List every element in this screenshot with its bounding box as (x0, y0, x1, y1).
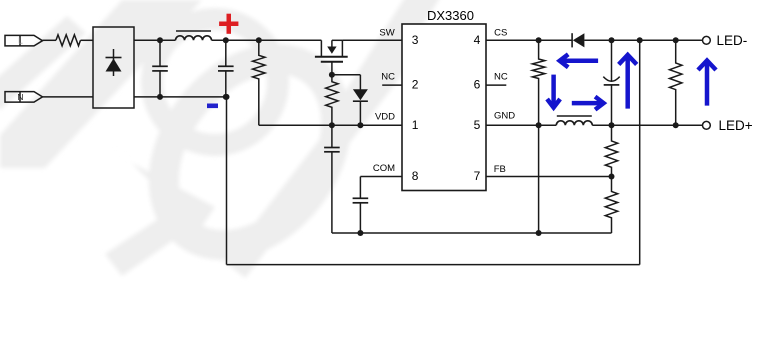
svg-text:2: 2 (412, 78, 419, 92)
svg-text:NC: NC (494, 72, 508, 83)
svg-text:VDD: VDD (375, 111, 395, 122)
svg-text:5: 5 (474, 118, 481, 132)
svg-text:N: N (17, 92, 23, 102)
svg-text:1: 1 (412, 118, 419, 132)
svg-text:GND: GND (494, 111, 515, 122)
svg-text:3: 3 (412, 33, 419, 47)
svg-text:LED+: LED+ (719, 118, 753, 133)
svg-text:7: 7 (474, 169, 481, 183)
svg-text:COM: COM (373, 163, 395, 174)
svg-text:NC: NC (381, 72, 395, 83)
svg-text:DX3360: DX3360 (427, 8, 474, 23)
svg-text:8: 8 (412, 169, 419, 183)
svg-text:CS: CS (494, 28, 507, 39)
svg-text:4: 4 (474, 33, 481, 47)
svg-text:FB: FB (494, 164, 506, 175)
svg-text:6: 6 (474, 78, 481, 92)
svg-text:SW: SW (379, 28, 394, 39)
svg-text:L: L (18, 36, 23, 46)
svg-text:LED-: LED- (717, 33, 748, 48)
